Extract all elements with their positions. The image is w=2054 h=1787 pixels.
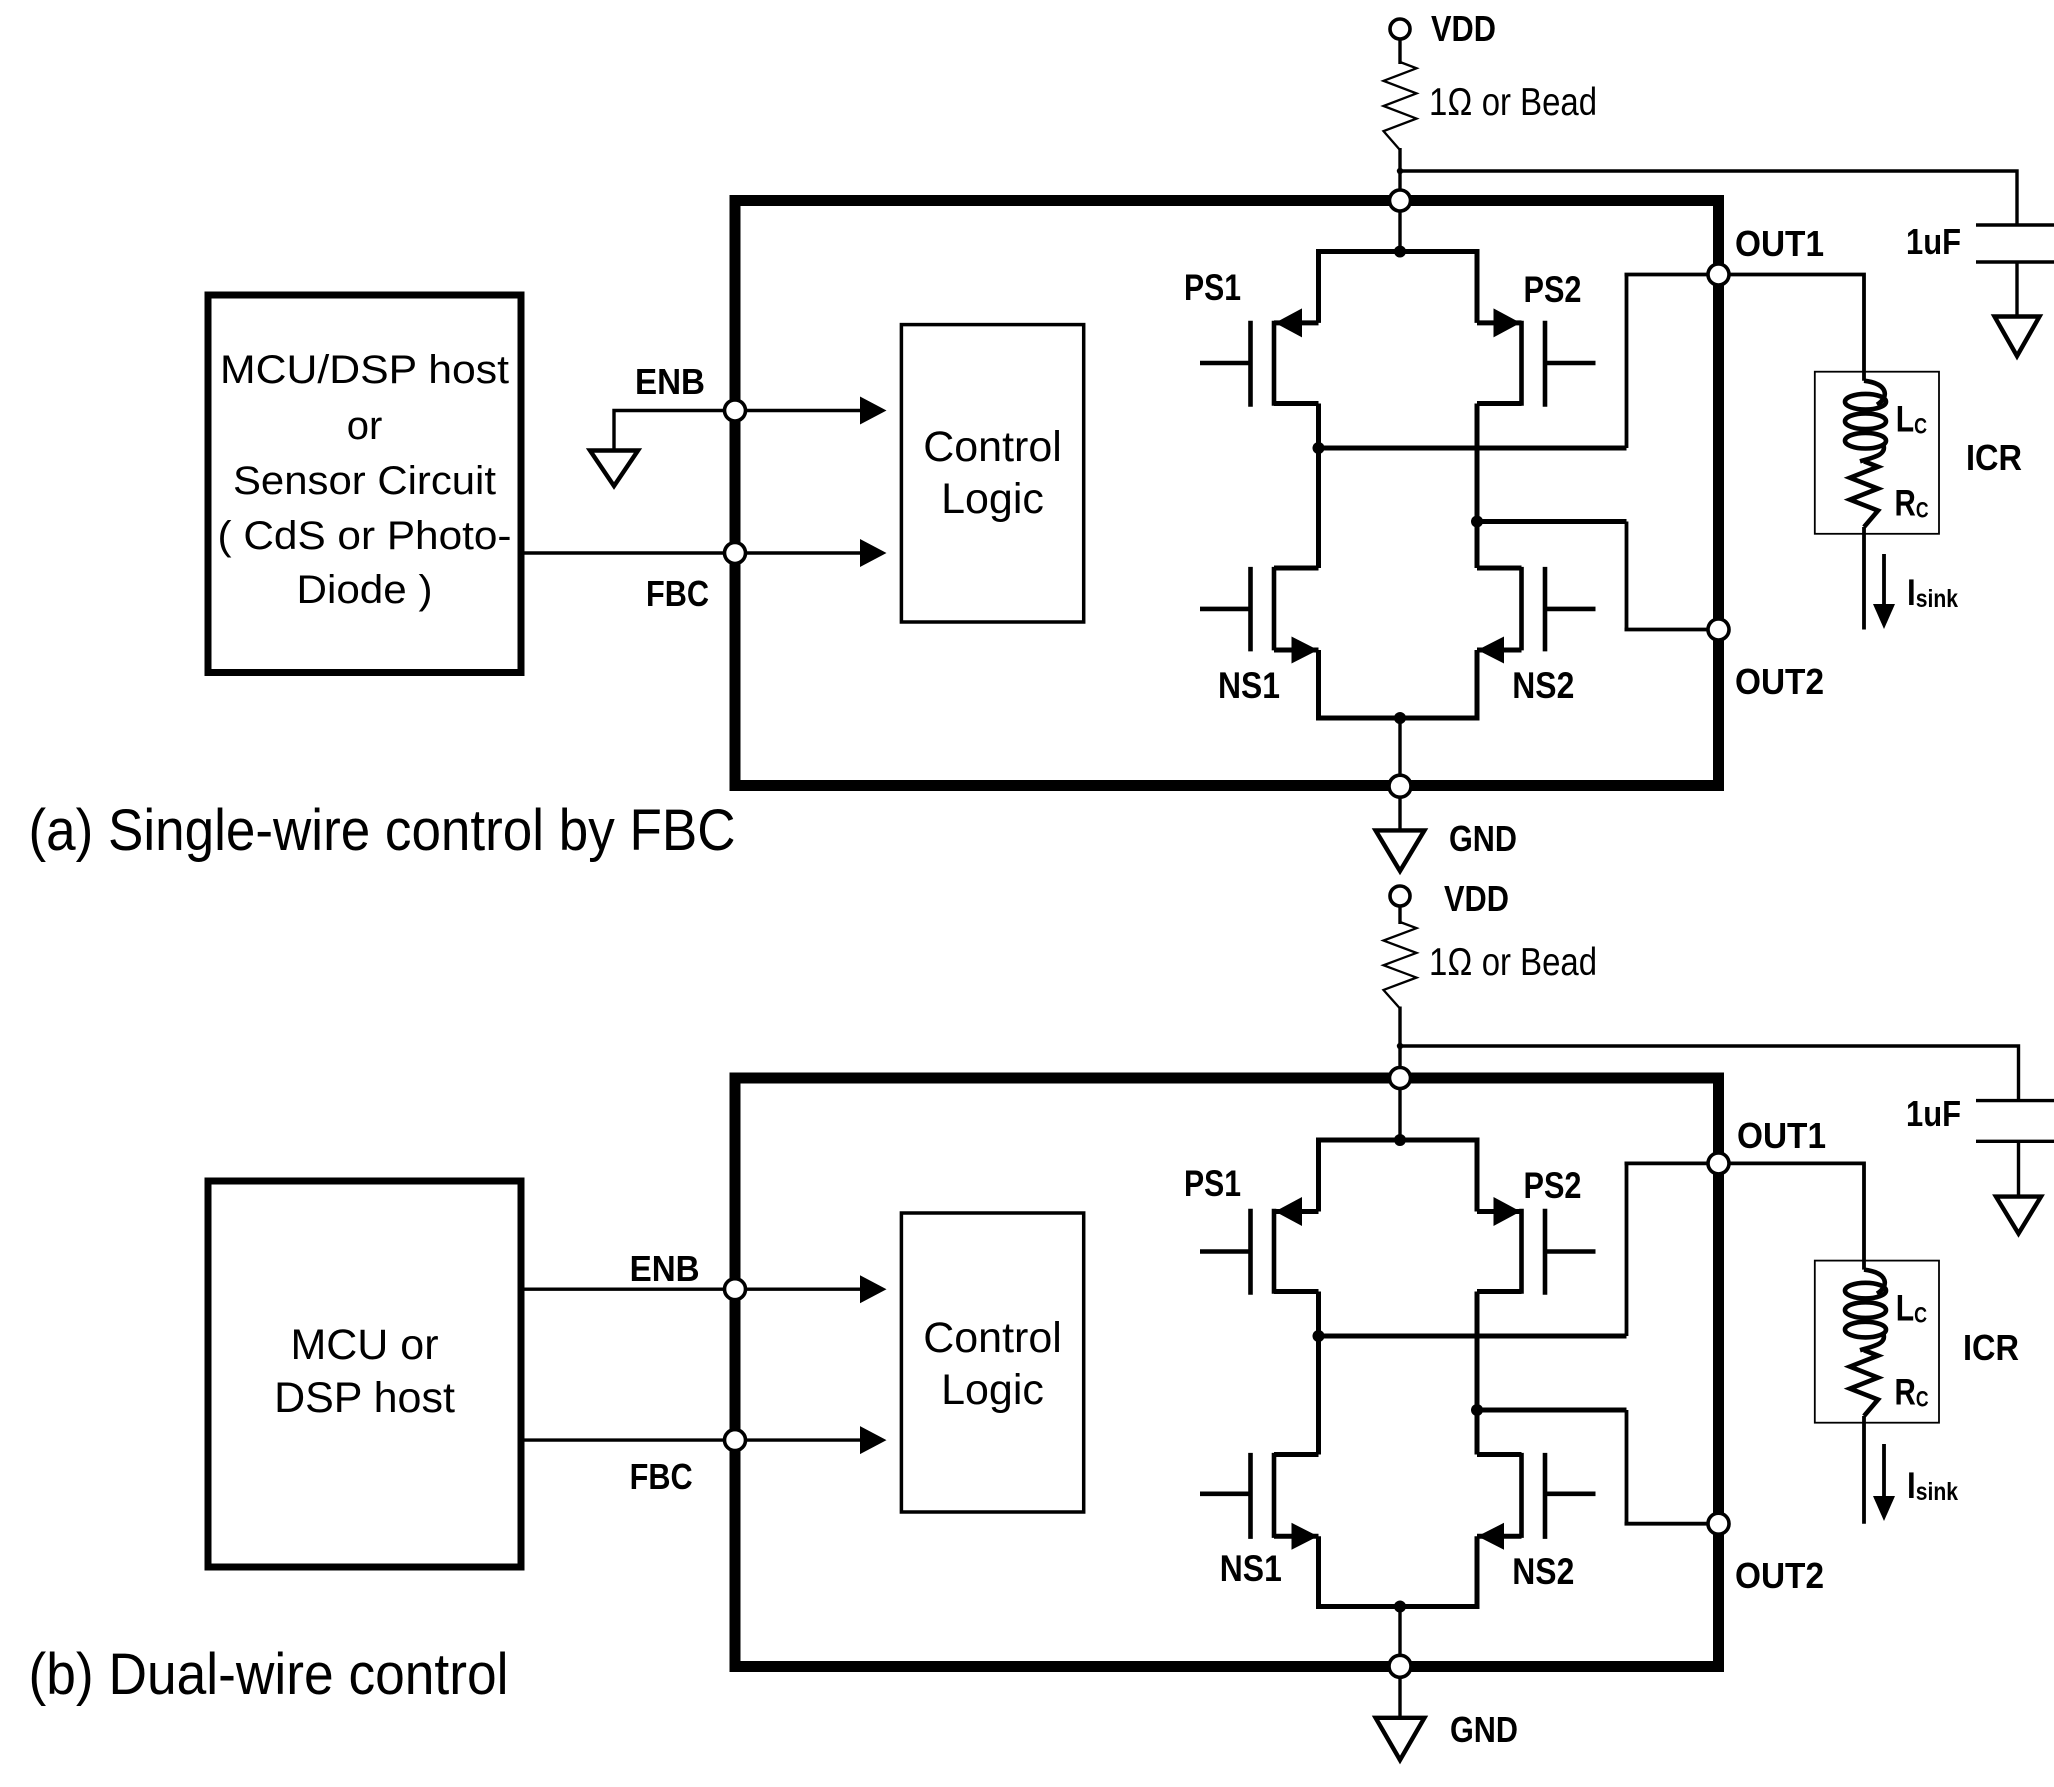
transistor NS2 (fig a) <box>1519 567 1524 651</box>
wire: PS1 source vertical (fig a) <box>1316 252 1321 323</box>
wire: PS1 drain to rail1 (fig b) <box>1316 1292 1321 1337</box>
svg-text:PS1: PS1 <box>1184 1163 1241 1204</box>
svg-text:Control: Control <box>923 423 1062 471</box>
host block MCU/DSP (fig b) <box>208 1181 521 1567</box>
svg-text:FBC: FBC <box>630 1456 693 1497</box>
node: GND pin junction (fig a) <box>1389 775 1411 797</box>
node: FBC pin (fig b) <box>725 1430 746 1451</box>
power terminal VDD (fig a) <box>1390 19 1410 39</box>
resistor 1 Ohm or Bead (fig a) <box>1384 62 1417 150</box>
wire: Rc to OUT2 (fig a) <box>1862 527 1866 630</box>
node OUT2 (fig a) <box>1708 619 1729 640</box>
wire: OUT2 feed vertical (fig b) <box>1625 1410 1629 1524</box>
svg-text:OUT1: OUT1 <box>1735 223 1824 264</box>
transistor PS1 (fig b) <box>1272 1209 1277 1294</box>
wire: OUT1 feed vertical (fig a) <box>1625 275 1629 449</box>
node OUT2 (fig b) <box>1708 1513 1729 1534</box>
ground symbol GND (fig a) <box>1376 830 1425 871</box>
wire: OUT2 feed vertical (fig a) <box>1625 522 1629 630</box>
svg-text:ICR: ICR <box>1966 437 2022 478</box>
wire arrow: FBC to control logic (fig b) <box>745 1438 862 1441</box>
wire: rail2 (OUT2 net) (fig a) <box>1477 519 1627 524</box>
wire: NS1 source vertical (fig b) <box>1316 1536 1321 1606</box>
svg-text:OUT2: OUT2 <box>1735 1555 1824 1596</box>
ground symbol (cap) (fig b) <box>1996 1197 2041 1234</box>
svg-text:Diode ): Diode ) <box>297 568 433 612</box>
node: top rail junction (fig a) <box>1394 246 1406 258</box>
svg-text:1uF: 1uF <box>1906 221 1961 262</box>
wire arrow: ENB to control logic (fig b) <box>745 1287 862 1290</box>
wire: OUT1 to load (fig a) <box>1728 275 1865 381</box>
wire: OUT1 feed vertical (fig b) <box>1625 1163 1629 1336</box>
svg-text:GND: GND <box>1450 1709 1518 1750</box>
wire: resistor to IC VDD pin (fig a) <box>1398 148 1401 201</box>
wire: NS2 drain vertical (fig b) <box>1475 1410 1480 1455</box>
svg-text:NS2: NS2 <box>1512 665 1574 706</box>
svg-text:PS2: PS2 <box>1524 1165 1582 1206</box>
svg-text:ENB: ENB <box>630 1248 700 1289</box>
wire: VDD to bypass cap (fig a) <box>1400 171 2017 225</box>
wire: OUT1 feed horizontal (fig a) <box>1625 273 1719 277</box>
wire: PS1 source vertical (fig b) <box>1316 1140 1321 1212</box>
inductor Lc (fig a) <box>1864 381 1885 405</box>
svg-text:MCU or: MCU or <box>290 1321 438 1369</box>
svg-text:ICR: ICR <box>1963 1327 2019 1368</box>
svg-text:NS1: NS1 <box>1218 665 1280 706</box>
host block MCU/DSP (fig a) <box>208 295 521 673</box>
svg-text:MCU/DSP host: MCU/DSP host <box>220 348 509 392</box>
wire: OUT2 feed horizontal (fig b) <box>1625 1522 1719 1526</box>
svg-text:NS1: NS1 <box>1220 1548 1282 1589</box>
wire: OUT2 feed horizontal (fig a) <box>1625 628 1719 632</box>
svg-text:ENB: ENB <box>635 361 705 402</box>
control logic block (fig b) <box>901 1213 1083 1512</box>
svg-text:OUT2: OUT2 <box>1735 661 1824 702</box>
node: VDD pin junction (fig a) <box>1390 190 1411 211</box>
power terminal VDD (fig b) <box>1390 886 1410 906</box>
ground symbol (ENB) (fig a) <box>590 451 638 487</box>
load box ICR (fig b) <box>1815 1261 1939 1423</box>
wire: NS1 source vertical (fig a) <box>1316 650 1321 718</box>
wire: bridge top rail (fig b) <box>1316 1138 1480 1143</box>
svg-text:Control: Control <box>923 1314 1062 1362</box>
node: bottom rail junction (fig a) <box>1394 712 1406 724</box>
wire: bottom rail to GND pin (fig b) <box>1398 1607 1401 1667</box>
wire: cap to ground (fig b) <box>2017 1141 2020 1196</box>
wire: ENB to ground (fig a) <box>614 411 735 451</box>
IC block (thick box) (fig a) <box>735 201 1719 786</box>
wire: resistor to IC VDD pin (fig b) <box>1398 1007 1401 1079</box>
wire: Rc to OUT2 (fig b) <box>1862 1416 1866 1524</box>
wire: VDD pin to bridge top rail (fig a) <box>1398 211 1401 252</box>
svg-text:Sensor Circuit: Sensor Circuit <box>233 459 496 503</box>
node: rail1 junction (fig b) <box>1313 1330 1325 1342</box>
wire: PS2 drain to rail2 (fig b) <box>1475 1292 1480 1411</box>
capacitor 1uF (fig a) <box>1976 223 2054 226</box>
wire: VDD to bypass cap (fig b) <box>1400 1046 2019 1101</box>
svg-text:(b) Dual-wire control: (b) Dual-wire control <box>29 1642 509 1707</box>
IC block (thick box) (fig b) <box>735 1078 1719 1667</box>
wire: PS2 source vertical (fig a) <box>1475 252 1480 323</box>
load box ICR (fig a) <box>1815 372 1939 534</box>
wire: bottom rail to GND pin (fig a) <box>1398 718 1401 786</box>
control logic block (fig a) <box>901 325 1083 622</box>
node: rail1 junction (fig a) <box>1313 442 1325 454</box>
svg-text:VDD: VDD <box>1431 8 1496 49</box>
node: top rail junction (fig b) <box>1394 1134 1406 1146</box>
wire: VDD pin to bridge top rail (fig b) <box>1398 1088 1401 1140</box>
wire: rail1 (OUT1 net) (fig a) <box>1319 446 1627 451</box>
wire: host to FBC (fig a) <box>521 551 735 554</box>
wire arrow: ENB to control logic (fig a) <box>745 409 862 412</box>
wire: bridge bottom rail (fig a) <box>1316 716 1480 721</box>
node: GND pin junction (fig b) <box>1389 1655 1411 1677</box>
node: FBC pin (fig a) <box>725 543 746 564</box>
wire: VDD lead (fig a) <box>1398 39 1401 65</box>
wire: PS2 source vertical (fig b) <box>1475 1140 1480 1212</box>
svg-text:FBC: FBC <box>646 573 709 614</box>
wire: NS2 source vertical (fig a) <box>1475 650 1480 718</box>
node OUT1 (fig b) <box>1708 1153 1729 1174</box>
svg-text:Logic: Logic <box>941 1366 1044 1414</box>
wire: rail1 (OUT1 net) (fig b) <box>1319 1334 1627 1339</box>
svg-text:( CdS or Photo-: ( CdS or Photo- <box>218 514 512 558</box>
svg-text:VDD: VDD <box>1444 878 1509 919</box>
wire: PS2 drain to rail2 (fig a) <box>1475 404 1480 522</box>
wire: OUT1 feed horizontal (fig b) <box>1625 1162 1719 1166</box>
svg-text:Logic: Logic <box>941 475 1044 523</box>
svg-text:DSP host: DSP host <box>274 1374 455 1422</box>
wire: OUT1 to load (fig b) <box>1728 1163 1865 1269</box>
svg-text:NS2: NS2 <box>1512 1551 1574 1592</box>
inductor Lc (fig b) <box>1864 1270 1885 1294</box>
wire: PS1 drain to rail1 (fig a) <box>1316 404 1321 449</box>
capacitor 1uF (fig b) <box>1976 1099 2054 1102</box>
wire: NS2 source vertical (fig b) <box>1475 1536 1480 1606</box>
wire: rail2 (OUT2 net) (fig b) <box>1477 1408 1627 1413</box>
wire: GND pin to ground (fig b) <box>1398 1676 1401 1718</box>
wire: cap to ground (fig a) <box>2015 262 2018 317</box>
svg-text:PS2: PS2 <box>1524 269 1582 310</box>
resistor 1 Ohm or Bead (fig b) <box>1384 922 1417 1009</box>
resistor Rc (fig b) <box>1850 1350 1878 1416</box>
transistor NS1 (fig a) <box>1272 567 1277 651</box>
wire: GND pin to ground (fig a) <box>1398 796 1401 830</box>
transistor PS2 (fig b) <box>1519 1209 1524 1294</box>
current arrow Isink (fig b) <box>1882 1444 1886 1498</box>
wire: bridge top rail (fig a) <box>1316 249 1480 254</box>
node: ENB pin (fig a) <box>725 400 746 421</box>
node: bottom rail junction (fig b) <box>1394 1601 1406 1613</box>
svg-text:1uF: 1uF <box>1906 1093 1961 1134</box>
node: VDD pin junction (fig b) <box>1390 1068 1411 1089</box>
resistor Rc (fig a) <box>1850 461 1878 527</box>
transistor PS2 (fig a) <box>1519 321 1524 406</box>
ground symbol (cap) (fig a) <box>1995 317 2040 357</box>
transistor NS1 (fig b) <box>1272 1453 1277 1538</box>
node: rail2 junction (fig b) <box>1471 1404 1483 1416</box>
wire: VDD lead (fig b) <box>1398 906 1401 925</box>
ground symbol GND (fig b) <box>1376 1718 1425 1760</box>
wire: NS1 drain vertical (fig a) <box>1316 448 1321 568</box>
transistor PS1 (fig a) <box>1272 321 1277 406</box>
wire: NS2 drain vertical (fig a) <box>1475 522 1480 569</box>
svg-text:1Ω or Bead: 1Ω or Bead <box>1429 81 1597 124</box>
wire: bridge bottom rail (fig b) <box>1316 1604 1480 1609</box>
svg-text:(a) Single-wire control by FBC: (a) Single-wire control by FBC <box>29 798 736 863</box>
svg-text:OUT1: OUT1 <box>1737 1115 1826 1156</box>
svg-text:GND: GND <box>1449 818 1517 859</box>
wire: host to FBC (fig b) <box>521 1438 735 1441</box>
wire: NS1 drain vertical (fig b) <box>1316 1336 1321 1455</box>
node: rail2 junction (fig a) <box>1471 516 1483 528</box>
svg-text:1Ω or Bead: 1Ω or Bead <box>1429 941 1597 984</box>
svg-text:or: or <box>347 404 383 448</box>
transistor NS2 (fig b) <box>1519 1453 1524 1538</box>
current arrow Isink (fig a) <box>1882 554 1886 606</box>
node OUT1 (fig a) <box>1708 264 1729 285</box>
node: ENB pin (fig b) <box>725 1279 746 1300</box>
wire: host to ENB (fig b) <box>521 1287 735 1290</box>
wire arrow: FBC to control logic (fig a) <box>745 551 862 554</box>
svg-text:PS1: PS1 <box>1184 267 1241 308</box>
